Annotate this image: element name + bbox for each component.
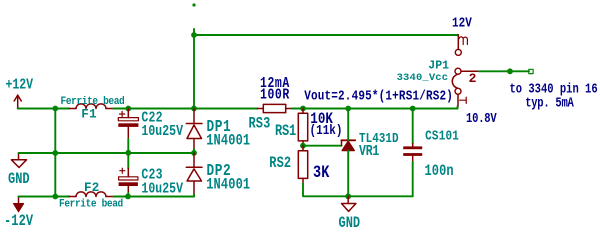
- junction GND bottom: [345, 193, 351, 199]
- junction +12V rail x55: [52, 106, 58, 112]
- ground symbol bottom: [342, 196, 356, 211]
- svg-text:VR1: VR1: [359, 143, 379, 160]
- junction C22 top: [125, 106, 131, 112]
- wire +12V rail left: [18, 108, 70, 110]
- svg-text:RS3: RS3: [249, 116, 271, 133]
- open wire end square: [529, 69, 533, 73]
- svg-text:RS1: RS1: [275, 124, 296, 141]
- wire F1 to RS3: [114, 108, 258, 110]
- junction RS1 RS2 ref: [300, 143, 306, 149]
- capacitor CS101: [403, 109, 422, 197]
- svg-text:1N4001: 1N4001: [206, 133, 250, 150]
- wire JP1 pin1 to Vout rail: [457, 107, 459, 109]
- svg-text:3340_Vcc: 3340_Vcc: [397, 72, 449, 84]
- svg-text:12V: 12V: [452, 14, 472, 31]
- svg-text:10.8V: 10.8V: [466, 111, 497, 127]
- jumper arc of JP1: [452, 74, 457, 88]
- ferrite bead F2: [69, 192, 113, 197]
- wire GND mid rail: [19, 152, 195, 154]
- ground symbol left: [11, 153, 26, 168]
- svg-text:+12V: +12V: [6, 76, 34, 93]
- svg-text:Ferrite bead: Ferrite bead: [59, 198, 123, 211]
- ferrite bead F1: [69, 104, 113, 109]
- svg-text:GND: GND: [8, 172, 30, 189]
- svg-text:10u25V: 10u25V: [141, 180, 183, 197]
- wire 12V horizontal top: [194, 34, 458, 36]
- wire -12V rail left: [19, 196, 70, 198]
- junction C23 bottom: [125, 194, 131, 200]
- svg-text:CS101: CS101: [425, 127, 459, 144]
- junction mid rail C22C23: [125, 150, 131, 156]
- svg-text:100R: 100R: [260, 86, 290, 103]
- shunt regulator VR1 TL431: [341, 140, 355, 150]
- junction mid rail diodes: [191, 150, 197, 156]
- wire 12V stub up: [193, 29, 195, 35]
- junction DP1 top: [191, 106, 197, 112]
- resistor RS2: [298, 146, 307, 184]
- pin 2 lead of JP1: [461, 70, 479, 72]
- resistor RS3: [257, 104, 291, 112]
- svg-text:typ. 5mA: typ. 5mA: [525, 95, 574, 111]
- diode DP2: [186, 153, 202, 195]
- svg-text:GND: GND: [339, 216, 361, 233]
- svg-text:1N4001: 1N4001: [206, 177, 250, 194]
- junction bus mid: [52, 150, 58, 156]
- svg-text:2: 2: [469, 71, 477, 86]
- diode DP1: [186, 109, 202, 150]
- node 12V stub dot top: [192, 3, 195, 6]
- svg-text:-12V: -12V: [4, 214, 34, 231]
- power arrow +12V: [14, 95, 21, 108]
- junction at 12V tee: [191, 32, 197, 38]
- svg-text:10u25V: 10u25V: [141, 123, 183, 140]
- junction RS1 top: [300, 106, 306, 112]
- pin 1 of JP1: [457, 94, 459, 106]
- jumper JP1: [452, 35, 479, 107]
- pad circle pin1 of JP1: [455, 88, 461, 94]
- svg-text:JP1: JP1: [428, 60, 449, 73]
- svg-text:Ferrite bead: Ferrite bead: [61, 95, 125, 108]
- svg-text:(11k): (11k): [310, 122, 343, 139]
- pad circle pin2 of JP1: [455, 68, 461, 74]
- wire 12V vertical drop: [193, 35, 195, 108]
- capacitor C23: [119, 153, 138, 197]
- wire F2 to DP2: [114, 196, 195, 198]
- svg-text:F2: F2: [84, 181, 100, 195]
- svg-text:3K: 3K: [313, 163, 330, 183]
- capacitor C22: [118, 109, 138, 154]
- svg-text:F1: F1: [81, 107, 97, 121]
- pin 3 of JP1: [457, 35, 459, 49]
- wire ref to VR1: [303, 145, 342, 147]
- junction bus bottom: [52, 194, 58, 200]
- svg-text:RS2: RS2: [269, 156, 291, 173]
- wire vertical bus x55: [54, 109, 56, 197]
- svg-text:Vout=2.495*(1+RS1/RS2): Vout=2.495*(1+RS1/RS2): [304, 87, 453, 104]
- resistor RS1: [298, 109, 307, 146]
- junction VR1 top: [345, 106, 351, 112]
- wire JP1 pin2 out: [479, 70, 529, 72]
- svg-text:100n: 100n: [425, 164, 454, 181]
- wire Vout rail: [292, 108, 458, 110]
- junction pin2 wire: [507, 68, 513, 74]
- power arrow -12V: [18, 197, 20, 204]
- junction CS101 top: [410, 106, 416, 112]
